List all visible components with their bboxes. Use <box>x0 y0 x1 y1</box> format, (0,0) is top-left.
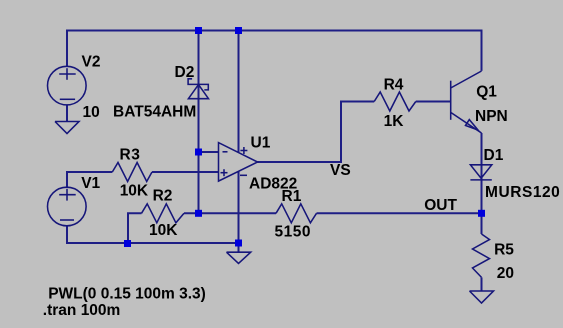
svg-text:NPN: NPN <box>475 108 508 125</box>
svg-text:PWL(0 0.15 100m 3.3): PWL(0 0.15 100m 3.3) <box>48 286 206 303</box>
svg-text:Q1: Q1 <box>476 84 497 101</box>
svg-text:BAT54AHM: BAT54AHM <box>113 103 196 120</box>
svg-text:20: 20 <box>497 265 514 282</box>
svg-text:V2: V2 <box>82 54 101 71</box>
svg-text:D2: D2 <box>175 64 195 81</box>
svg-text:1K: 1K <box>384 113 405 130</box>
svg-text:R4: R4 <box>384 77 404 94</box>
svg-text:.tran 100m: .tran 100m <box>43 302 121 319</box>
svg-text:OUT: OUT <box>424 197 457 214</box>
svg-text:R5: R5 <box>494 242 514 259</box>
svg-text:10K: 10K <box>120 183 149 200</box>
svg-text:5150: 5150 <box>275 224 311 241</box>
svg-text:R3: R3 <box>120 146 141 163</box>
svg-text:U1: U1 <box>251 135 271 152</box>
svg-text:VS: VS <box>330 162 351 179</box>
svg-text:V1: V1 <box>81 175 100 192</box>
svg-text:10K: 10K <box>149 222 178 239</box>
svg-text:10: 10 <box>83 104 100 121</box>
svg-text:MURS120: MURS120 <box>485 184 560 201</box>
svg-text:R2: R2 <box>153 187 173 204</box>
svg-text:R1: R1 <box>282 188 302 205</box>
svg-text:D1: D1 <box>484 147 504 164</box>
